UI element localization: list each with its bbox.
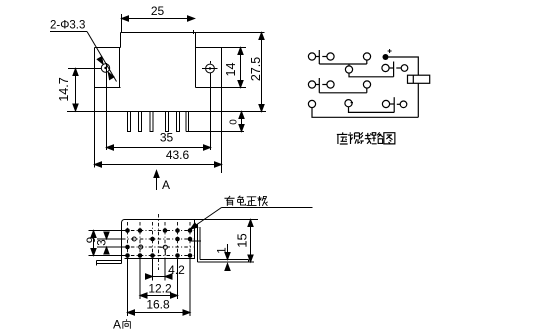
dimension 12.2 [140, 293, 178, 298]
label colored dot positive pole [224, 196, 234, 206]
left foot end [96, 261, 98, 266]
left ear top edge [95, 47, 121, 49]
col 4 centerline [164, 222, 166, 258]
contact pin circle row1 left [308, 53, 315, 60]
right hole centerline to 35 dim [210, 73, 212, 150]
pin bottom extension line [186, 131, 244, 133]
contact bar row3 [318, 78, 320, 93]
dimension 15 [248, 220, 253, 263]
body top edge + 27.5 extension [121, 32, 265, 34]
svg-text:35: 35 [160, 131, 174, 145]
wire row3 L [319, 88, 367, 93]
body left corner vertical [120, 33, 122, 48]
left ear bottom edge [95, 87, 121, 89]
row2 pins [150, 237, 155, 242]
rect left edge down to foot [121, 259, 123, 264]
svg-text:A: A [162, 178, 170, 192]
coil [408, 75, 430, 83]
row 2 centerline [122, 238, 194, 240]
right foot top [200, 259, 249, 261]
wire row1 stub A-bar [316, 56, 320, 58]
contact pin circle row1 mid [327, 53, 334, 60]
pin slot 5 [177, 112, 180, 132]
25 corner nub [193, 30, 195, 34]
contact pin circle row3 left [308, 81, 315, 88]
left ear left edge + 43.6 extension line [94, 48, 96, 168]
body right corner vertical [195, 33, 197, 48]
svg-text:3: 3 [97, 239, 109, 245]
25 extension tick [121, 14, 123, 32]
svg-text:15: 15 [235, 233, 250, 247]
row 4 centerline [122, 255, 194, 257]
caption 底视线路图 [337, 132, 348, 144]
moving contact circle row4 [345, 100, 352, 107]
pin slot 4 [166, 112, 169, 132]
right bracket inner vertical [199, 227, 201, 260]
right foot bottom + 15 extension [198, 261, 255, 263]
right ear right edge + 43.6 extension line [221, 48, 223, 174]
top edge extension to 15 dim [195, 219, 259, 221]
svg-text:4.2: 4.2 [168, 263, 185, 277]
hollow pins [132, 237, 167, 255]
pin grid centerlines [122, 214, 194, 270]
pin slot 2 [139, 112, 142, 132]
dimension 16.8 [128, 310, 191, 315]
col 1 centerline [127, 222, 129, 258]
left foot top [97, 260, 122, 262]
14.7 extension line from hole center [68, 68, 101, 70]
svg-text:1: 1 [217, 247, 229, 253]
moving contact circle row1 [345, 66, 352, 73]
svg-text:0: 0 [229, 119, 240, 125]
contact bar row4 [393, 97, 395, 112]
contact pin circle row3 mid [327, 81, 334, 88]
svg-text:27.5: 27.5 [249, 57, 263, 81]
pins: filled [125, 228, 192, 258]
base outline rounded rect [122, 220, 195, 259]
col 3 centerline [152, 222, 154, 258]
left hole centerline to 35 dim [106, 63, 108, 150]
contact bar row2 [393, 62, 395, 77]
svg-text:43.6: 43.6 [166, 148, 190, 162]
wire row4 stub [390, 103, 395, 105]
row 1 centerline [122, 230, 194, 232]
svg-text:A: A [113, 318, 121, 332]
row1 pins [125, 228, 130, 233]
row 3 centerline [122, 246, 194, 248]
NO group circle row2 left [382, 64, 389, 71]
main vertical centerline [158, 214, 160, 270]
svg-text:12.2: 12.2 [148, 282, 172, 296]
col extension lines below [127, 259, 129, 316]
right foot end [248, 260, 250, 263]
coil lead bottom [417, 83, 419, 117]
plus mark [388, 49, 392, 53]
dimension 1 [225, 244, 230, 271]
pin slot 6 [186, 112, 189, 132]
col 6 centerline [189, 222, 191, 258]
dimension 4.2 [146, 274, 173, 279]
NO gap dash row3 [322, 84, 327, 86]
row extension lines left [89, 231, 191, 317]
NO gap dash row1 [322, 56, 327, 58]
right ear bottom edge + 14 extension [196, 87, 247, 89]
NO gap dash row2 [396, 67, 401, 69]
row4 pins [125, 253, 130, 258]
svg-text:14: 14 [224, 63, 238, 77]
contact bar row1 [318, 50, 320, 64]
wire dot to bus [388, 57, 418, 75]
left ear right edge [119, 48, 121, 88]
col 2 centerline [139, 222, 141, 258]
dimension 9 [91, 231, 96, 256]
contact pin circle row3 right [363, 81, 370, 88]
contact pin circle row1 right [363, 53, 370, 60]
svg-text:25: 25 [151, 4, 165, 18]
row3 pins [125, 245, 130, 250]
wire row1 moving contact stubs [349, 64, 394, 77]
col 5 centerline [177, 222, 179, 258]
dimension 3 [104, 232, 109, 255]
nub on moving contact row4 [351, 102, 353, 104]
NO group circle row4 right [400, 101, 407, 108]
NO group circle row4 left [382, 100, 389, 107]
wire row1 L [319, 60, 367, 64]
pin slot 1 [128, 112, 131, 132]
contact pin circle row4 left [308, 100, 315, 107]
wire row4 moving contact lead [349, 107, 395, 113]
right mounting hole [206, 64, 215, 73]
wire row4 H to bottom bus [312, 108, 418, 118]
svg-text:14.7: 14.7 [57, 77, 71, 101]
svg-text:16.8: 16.8 [146, 298, 170, 312]
NO gap dash row4 [397, 103, 400, 105]
NO group circle row2 right [401, 65, 408, 72]
wire row3 stub E-bar [316, 84, 320, 86]
left mounting hole [101, 64, 109, 72]
body bottom edge + 27.5 extension [67, 111, 266, 113]
coil positive dot [383, 54, 389, 60]
wire row2 stub [389, 67, 394, 69]
right ear left edge [195, 48, 197, 88]
right ear top edge + 14 extension [196, 47, 247, 49]
pin slot 3 [150, 112, 153, 132]
right hole cross ticks [202, 68, 218, 70]
svg-text:2-Φ3.3: 2-Φ3.3 [50, 20, 85, 32]
right bracket outer vertical [197, 225, 199, 263]
left foot bottom [97, 263, 122, 265]
